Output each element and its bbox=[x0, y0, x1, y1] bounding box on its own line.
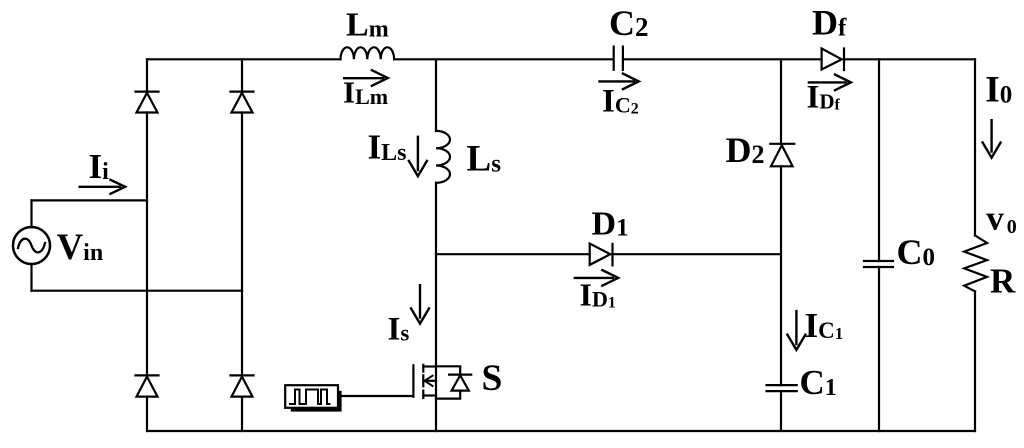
svg-text:S: S bbox=[482, 358, 503, 399]
diode Df bbox=[812, 3, 847, 71]
svg-text:v0: v0 bbox=[986, 199, 1017, 239]
current label Ii bbox=[80, 147, 126, 194]
wire middle branch Ls to bottom bbox=[435, 183, 437, 431]
current arrow ILm bbox=[343, 70, 388, 109]
AC source Vin bbox=[13, 200, 103, 290]
svg-text:I0: I0 bbox=[985, 70, 1012, 111]
current arrow I0 bbox=[983, 70, 1013, 158]
wire gate bbox=[341, 395, 413, 397]
wire top rail between Lm and C2 bbox=[394, 58, 613, 60]
wire D2 to C1 bbox=[780, 166, 782, 385]
bridge diode bottom-right bbox=[231, 375, 254, 431]
svg-text:IC2: IC2 bbox=[602, 84, 639, 120]
svg-text:C1: C1 bbox=[800, 363, 837, 402]
wire right branch top bbox=[974, 59, 976, 235]
svg-text:ILm: ILm bbox=[343, 74, 388, 109]
current arrow ID1 bbox=[575, 270, 618, 312]
body diode of S bbox=[436, 366, 460, 374]
wire D1 branch left bbox=[436, 253, 590, 255]
svg-text:Ls: Ls bbox=[467, 139, 502, 180]
resistor R bbox=[964, 235, 1016, 300]
wire Vin bottom to bridge bbox=[32, 290, 243, 292]
svg-text:ILs: ILs bbox=[368, 128, 407, 167]
svg-text:D1: D1 bbox=[592, 206, 629, 243]
wire top rail left segment bbox=[147, 58, 341, 60]
wire C0 branch top bbox=[878, 59, 880, 261]
capacitor C0 bbox=[864, 232, 935, 272]
svg-text:IC1: IC1 bbox=[805, 306, 844, 345]
wire bridge leg 2 middle bbox=[241, 113, 243, 376]
wire C0 to bottom rail bbox=[878, 267, 880, 431]
svg-text:Ii: Ii bbox=[89, 147, 110, 186]
inductor Lm bbox=[341, 7, 395, 60]
capacitor C2 bbox=[609, 3, 649, 70]
svg-text:C2: C2 bbox=[609, 3, 649, 43]
svg-text:Df: Df bbox=[812, 3, 847, 43]
bridge diode top-left bbox=[136, 59, 159, 112]
wire top rail between C2 and Df bbox=[623, 58, 822, 60]
wire Vin top to bridge bbox=[32, 199, 148, 201]
bridge diode bottom-left bbox=[136, 375, 159, 431]
svg-text:Is: Is bbox=[388, 312, 410, 348]
current arrow ILs bbox=[368, 128, 427, 177]
diode D1 bbox=[590, 206, 629, 266]
current arrow IC2 bbox=[600, 74, 639, 120]
wire D2 branch top bbox=[780, 59, 782, 144]
current arrow Is bbox=[388, 285, 430, 347]
wire C1 to bottom rail bbox=[780, 391, 782, 431]
transistor S (MOSFET) bbox=[413, 358, 502, 399]
wire bridge leg 1 middle bbox=[146, 113, 148, 376]
diode D2 bbox=[726, 130, 795, 170]
gate drive pulse source bbox=[285, 385, 341, 411]
wire top rail right segment bbox=[844, 58, 975, 60]
svg-text:C0: C0 bbox=[897, 232, 936, 272]
svg-text:Vin: Vin bbox=[57, 226, 103, 267]
wire D1 branch right bbox=[613, 253, 782, 255]
wire bottom rail bbox=[147, 430, 975, 432]
current arrow IDf bbox=[807, 75, 851, 116]
inductor Ls bbox=[436, 131, 501, 183]
bridge diode top-right bbox=[231, 59, 254, 112]
wire R to bottom rail bbox=[974, 291, 976, 431]
svg-text:R: R bbox=[990, 261, 1016, 300]
svg-text:IDf: IDf bbox=[807, 80, 841, 116]
wire middle branch top bbox=[435, 59, 437, 131]
current arrow IC1 bbox=[787, 306, 843, 350]
capacitor C1 bbox=[767, 363, 837, 402]
svg-text:D2: D2 bbox=[726, 130, 765, 170]
svg-text:Lm: Lm bbox=[346, 7, 389, 44]
